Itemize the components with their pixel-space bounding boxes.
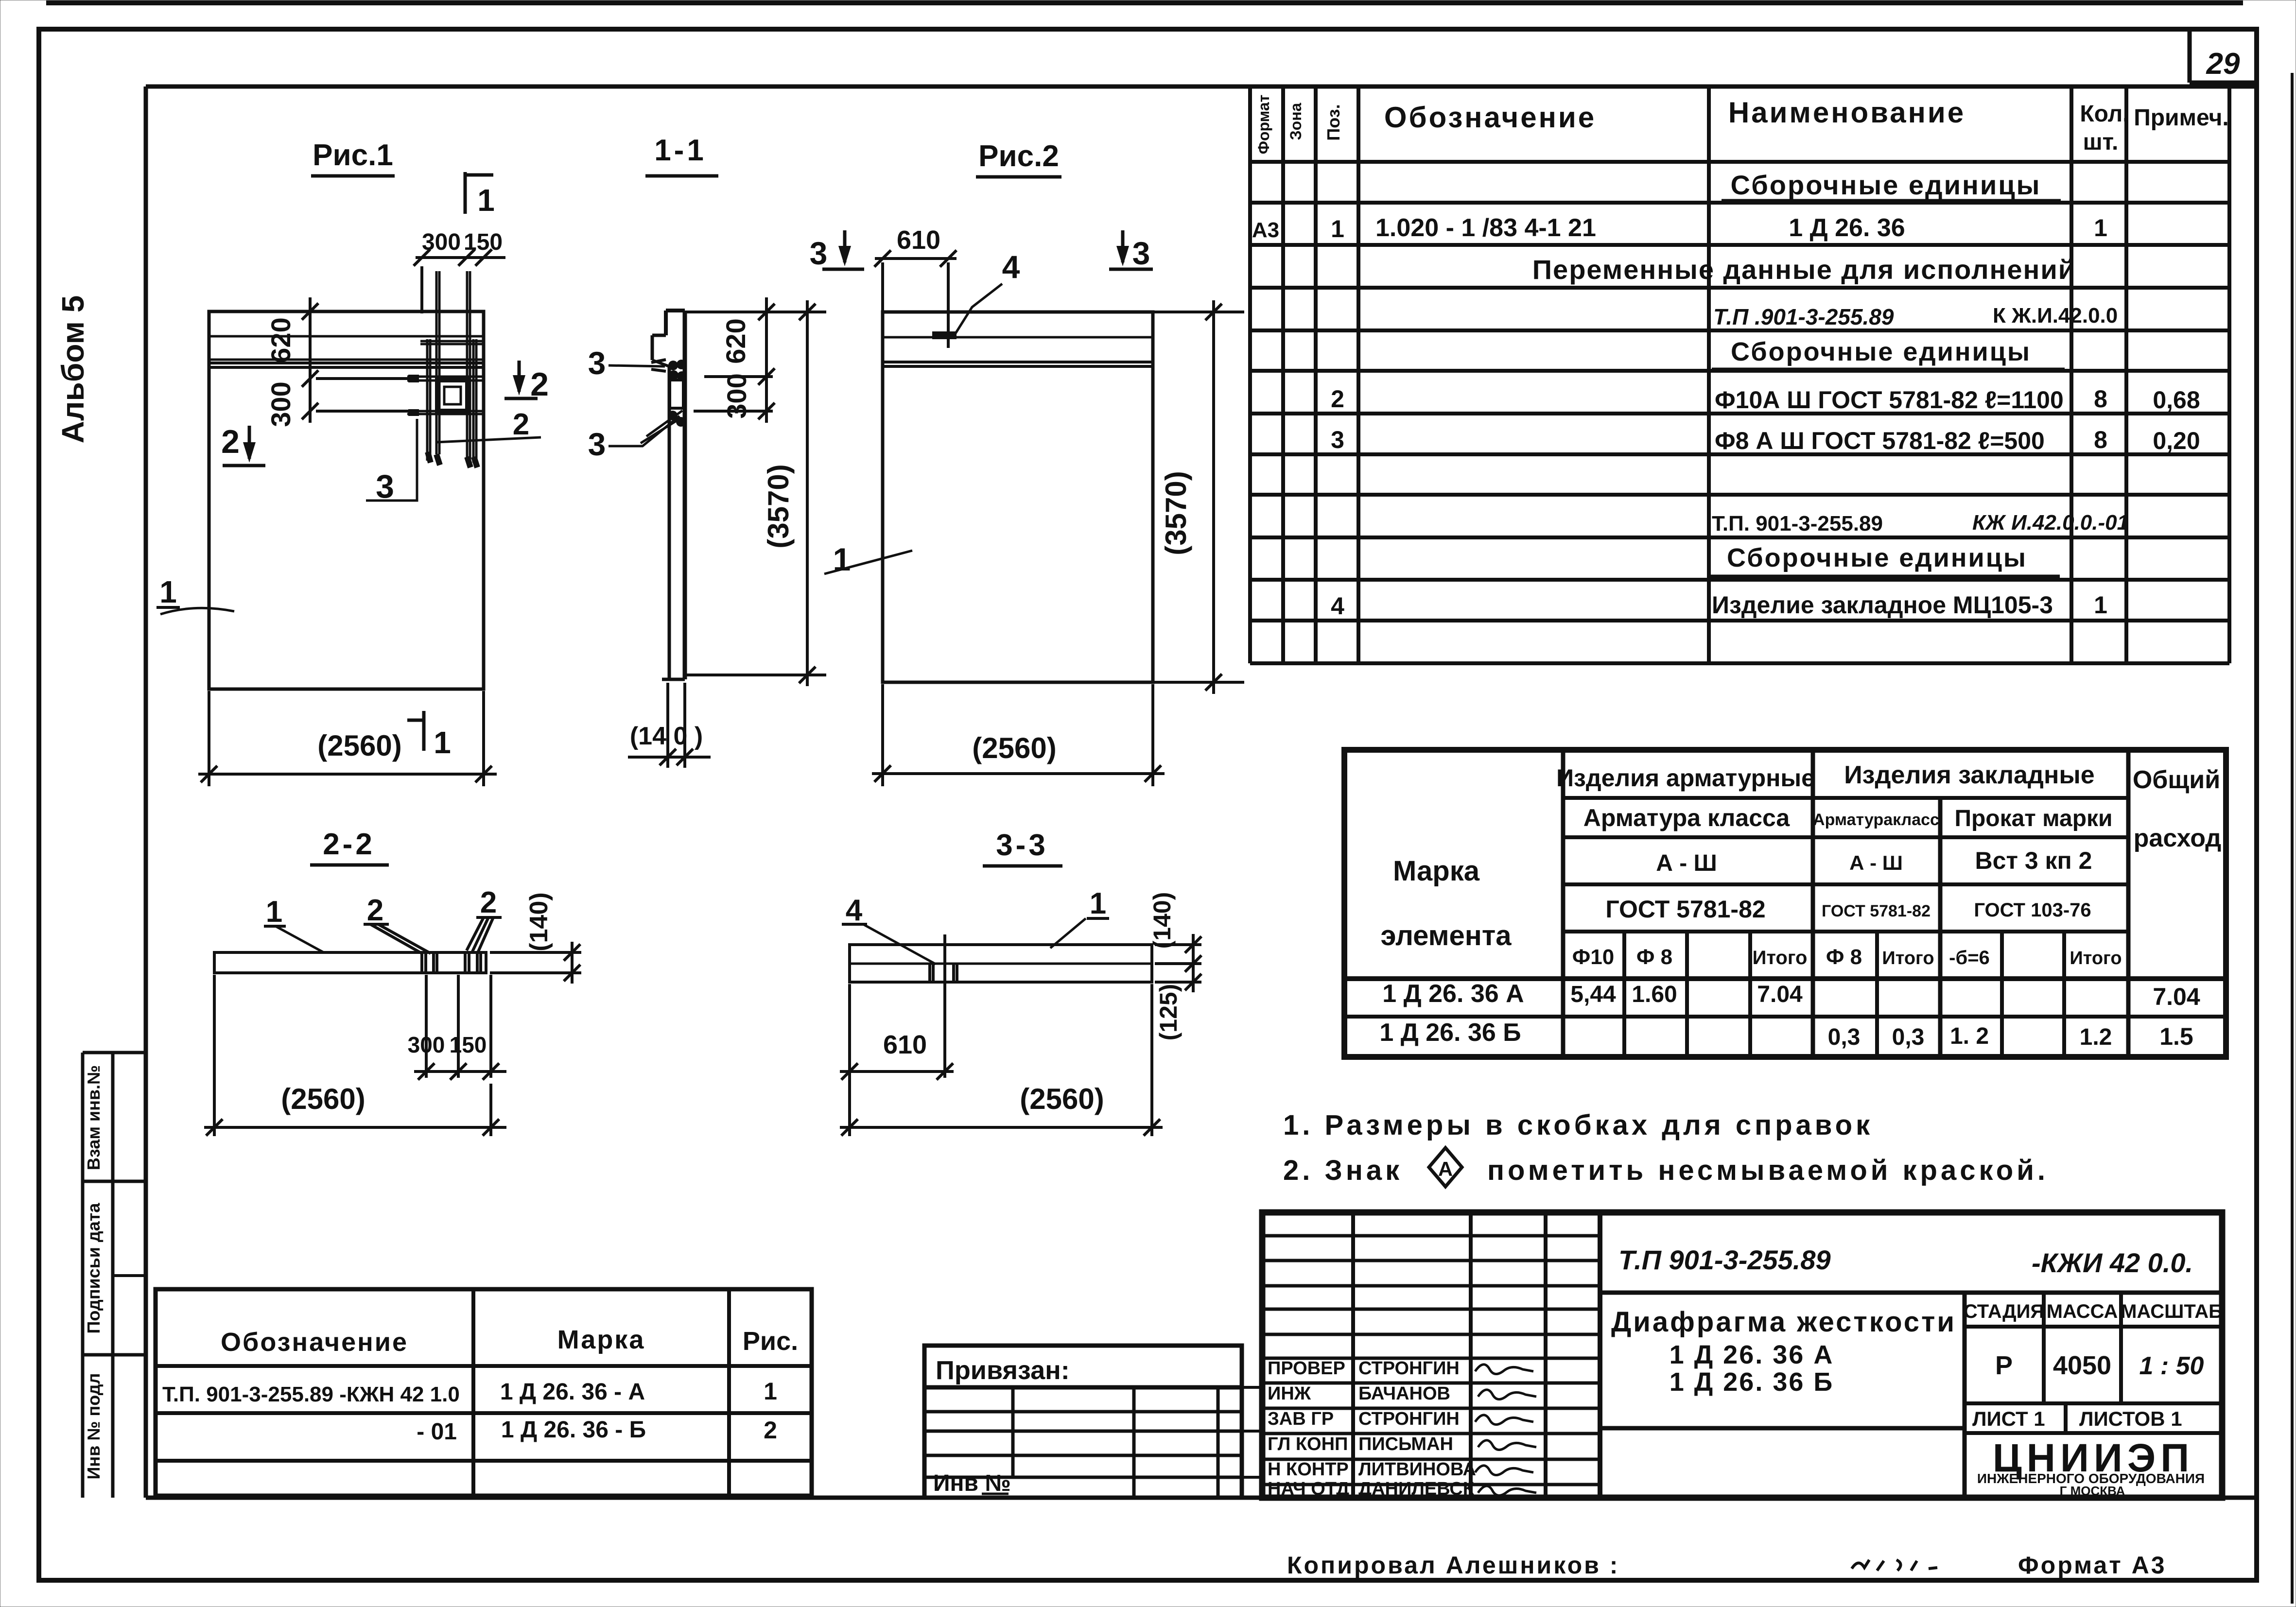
1-1 dimension (3570) xyxy=(685,311,826,313)
svg-text:Сборочные единицы: Сборочные единицы xyxy=(1731,170,2041,200)
title block left stamp rows xyxy=(1262,1234,1600,1238)
svg-text:1. Размеры в скобках для справ: 1. Размеры в скобках для справок xyxy=(1283,1109,1873,1141)
Рис.1 panel outline xyxy=(209,311,484,689)
svg-text:Н КОНТР: Н КОНТР xyxy=(1268,1459,1349,1480)
svg-text:-КЖИ 42 0.0.: -КЖИ 42 0.0. xyxy=(2032,1247,2193,1278)
svg-text:Формат: Формат xyxy=(1255,95,1272,155)
svg-text:Итого: Итого xyxy=(1882,948,1934,968)
svg-text:Вст 3 кп 2: Вст 3 кп 2 xyxy=(1975,847,2092,874)
svg-text:610: 610 xyxy=(897,225,940,255)
svg-text:ПИСЬМАН: ПИСЬМАН xyxy=(1358,1434,1453,1454)
Рис.1 opening (embedded square) xyxy=(437,380,468,411)
svg-text:3: 3 xyxy=(588,426,606,462)
svg-text:2: 2 xyxy=(221,423,240,460)
svg-text:(2560): (2560) xyxy=(317,729,401,762)
svg-text:0,20: 0,20 xyxy=(2153,427,2200,454)
svg-text:Привязан:: Привязан: xyxy=(936,1356,1070,1385)
svg-text:3: 3 xyxy=(810,235,828,271)
svg-text:КЖ И.42.0.0.-01: КЖ И.42.0.0.-01 xyxy=(1972,511,2129,535)
svg-text:7.04: 7.04 xyxy=(1757,982,1803,1007)
materials table grid xyxy=(1344,750,2226,1057)
svg-text:Переменные данные для исполнен: Переменные данные для исполнений xyxy=(1532,254,2076,285)
2-2 right dimension (140) xyxy=(490,951,581,954)
2-2 slab section xyxy=(214,952,486,973)
2-2 bottom dimension (2560) xyxy=(213,975,216,1136)
svg-text:2: 2 xyxy=(1331,385,1344,413)
svg-text:Прокат марки: Прокат марки xyxy=(1954,806,2112,831)
svg-text:4: 4 xyxy=(1002,249,1020,285)
1-1 section profile xyxy=(666,309,685,312)
svg-text:Диафрагма жесткости: Диафрагма жесткости xyxy=(1611,1306,1956,1338)
title block name cell xyxy=(1963,1293,1967,1498)
svg-text:Сборочные единицы: Сборочные единицы xyxy=(1727,543,2027,572)
title block code strip xyxy=(1600,1291,2222,1295)
svg-text:(140): (140) xyxy=(1148,892,1176,949)
svg-text:Изделия арматурные: Изделия арматурные xyxy=(1556,764,1815,792)
svg-text:300: 300 xyxy=(422,229,461,255)
1-1 bar cross-section dots xyxy=(668,361,678,370)
svg-text:2: 2 xyxy=(513,408,529,441)
svg-text:Р: Р xyxy=(1995,1351,2013,1380)
svg-text:Подписьи дата: Подписьи дата xyxy=(84,1203,104,1334)
svg-text:4050: 4050 xyxy=(2053,1351,2111,1380)
Рис.2 bottom dimension (2560) xyxy=(881,684,884,786)
svg-text:А: А xyxy=(1438,1158,1453,1180)
svg-text:-б=6: -б=6 xyxy=(1949,947,1990,968)
svg-text:3: 3 xyxy=(1132,235,1150,271)
svg-text:3-3: 3-3 xyxy=(996,829,1048,862)
svg-text:Итого: Итого xyxy=(1753,947,1808,968)
svg-text:- 01: - 01 xyxy=(417,1419,457,1445)
svg-text:(140): (140) xyxy=(525,892,553,951)
svg-text:ГОСТ 5781-82: ГОСТ 5781-82 xyxy=(1822,902,1931,920)
svg-text:1: 1 xyxy=(2094,214,2107,242)
Рис.1 rebar cage item 3 horizontal bars xyxy=(420,340,485,343)
Рис.1 section mark 1 (top) xyxy=(464,172,467,214)
Рис.1 top dimension 300 150 xyxy=(416,256,505,259)
3-3 right dimension (140)/(125) xyxy=(1155,943,1201,946)
svg-text:1.5: 1.5 xyxy=(2159,1023,2193,1050)
Рис.2 right dimension (3570) xyxy=(1153,311,1244,313)
svg-text:1 Д 26. 36 - А: 1 Д 26. 36 - А xyxy=(500,1379,645,1405)
svg-text:А3: А3 xyxy=(1252,218,1279,242)
svg-text:0,3: 0,3 xyxy=(1892,1024,1925,1050)
svg-text:ГЛ КОНΠ: ГЛ КОНΠ xyxy=(1268,1434,1348,1454)
svg-text:Общий: Общий xyxy=(2133,766,2220,794)
Рис.1 left dimension 620 / 300 xyxy=(309,297,312,423)
svg-text:Стадия: Стадия xyxy=(1964,1301,2044,1322)
svg-text:300: 300 xyxy=(408,1032,445,1057)
svg-text:Копировал Алешников :: Копировал Алешников : xyxy=(1287,1552,1619,1579)
svg-text:(3570): (3570) xyxy=(762,464,795,548)
svg-text:3: 3 xyxy=(588,345,606,381)
svg-text:2: 2 xyxy=(367,894,383,927)
svg-text:7.04: 7.04 xyxy=(2153,983,2200,1010)
svg-text:1: 1 xyxy=(2094,591,2107,619)
svg-text:ГОСТ 103-76: ГОСТ 103-76 xyxy=(1974,899,2091,921)
Рис.2 dimension 610 xyxy=(875,257,957,260)
svg-text:(125): (125) xyxy=(1155,984,1182,1041)
svg-text:1-1: 1-1 xyxy=(654,134,707,167)
Рис.1 rebar cage item 2 vertical bars xyxy=(435,271,438,454)
Рис.1 section mark 2 (right) xyxy=(518,361,521,392)
svg-text:НАЧ ОТД: НАЧ ОТД xyxy=(1268,1479,1349,1499)
svg-text:1: 1 xyxy=(159,574,177,609)
svg-text:Марка: Марка xyxy=(557,1325,645,1354)
1-1 dimension 620 / 300 xyxy=(765,297,768,423)
svg-text:1: 1 xyxy=(266,895,282,929)
1-1 embedded plate detail xyxy=(670,380,683,408)
svg-text:А - Ш: А - Ш xyxy=(1656,850,1717,876)
svg-text:пометить несмываемой краской: пометить несмываемой краской. xyxy=(1487,1155,2049,1186)
svg-text:ГОСТ 5781-82: ГОСТ 5781-82 xyxy=(1605,896,1765,923)
Рис.1 section mark 1 (bottom) xyxy=(422,711,426,751)
svg-text:8: 8 xyxy=(2094,426,2107,453)
svg-text:Взам инв.№: Взам инв.№ xyxy=(84,1065,104,1170)
Рис.1 leader item 2 (bottom of cage) xyxy=(436,437,541,442)
signatures xyxy=(1475,1365,1533,1374)
svg-text:1 Д 26. 36 - Б: 1 Д 26. 36 - Б xyxy=(501,1417,646,1443)
svg-text:0,3: 0,3 xyxy=(1828,1024,1861,1050)
svg-text:Обозначение: Обозначение xyxy=(1384,101,1596,134)
svg-text:Обозначение: Обозначение xyxy=(221,1328,408,1357)
svg-text:СТРОНГИН: СТРОНГИН xyxy=(1358,1358,1460,1379)
svg-text:0,68: 0,68 xyxy=(2153,386,2200,414)
svg-text:ЗАВ ГР: ЗАВ ГР xyxy=(1268,1409,1334,1429)
Рис.1 bar end hooks xyxy=(428,452,431,463)
svg-text:29: 29 xyxy=(2206,47,2240,81)
svg-text:(2560): (2560) xyxy=(972,732,1056,764)
svg-text:2: 2 xyxy=(764,1417,777,1444)
svg-text:ДАНИЛЕВСК: ДАНИЛЕВСК xyxy=(1358,1479,1475,1499)
svg-text:Ф 8: Ф 8 xyxy=(1636,945,1672,969)
svg-text:Т.П. 901-3-255.89 -КЖН 42 1.0: Т.П. 901-3-255.89 -КЖН 42 1.0 xyxy=(162,1382,460,1406)
svg-text:Т.П .901-3-255.89: Т.П .901-3-255.89 xyxy=(1713,304,1894,329)
Рис.2 embedded plate item 4 xyxy=(932,331,957,339)
svg-text:150: 150 xyxy=(464,229,503,255)
svg-text:Ф10: Ф10 xyxy=(1572,945,1615,969)
svg-text:1. 2: 1. 2 xyxy=(1950,1023,1989,1049)
svg-text:2: 2 xyxy=(480,886,497,919)
svg-text:5,44: 5,44 xyxy=(1570,982,1616,1007)
svg-text:Примеч.: Примеч. xyxy=(2134,105,2229,131)
svg-text:Марка: Марка xyxy=(1393,855,1480,887)
svg-text:3: 3 xyxy=(1331,426,1344,453)
svg-text:Арматуракласс: Арматуракласс xyxy=(1813,811,1939,829)
svg-text:Т.П 901-3-255.89: Т.П 901-3-255.89 xyxy=(1618,1244,1831,1275)
svg-text:Ф8 А Ш ГОСТ 5781-82 ℓ=500: Ф8 А Ш ГОСТ 5781-82 ℓ=500 xyxy=(1715,427,2045,454)
svg-text:2-2: 2-2 xyxy=(323,828,375,861)
svg-text:Формат А3: Формат А3 xyxy=(2018,1552,2167,1579)
svg-text:1 Д 26. 36 А: 1 Д 26. 36 А xyxy=(1670,1340,1834,1369)
svg-text:1: 1 xyxy=(764,1378,777,1405)
svg-text:Ф10А Ш ГОСТ 5781-82 ℓ=1100: Ф10А Ш ГОСТ 5781-82 ℓ=1100 xyxy=(1715,386,2064,414)
title block left stamp columns xyxy=(1351,1212,1355,1498)
1-1 bottom dimension (140) xyxy=(666,683,669,768)
svg-text:Поз.: Поз. xyxy=(1323,104,1343,140)
svg-text:шт.: шт. xyxy=(2083,129,2119,155)
specification table grid xyxy=(1248,86,1252,663)
svg-text:Масштаб: Масштаб xyxy=(2121,1301,2223,1322)
svg-text:3: 3 xyxy=(376,468,394,505)
svg-text:1: 1 xyxy=(1090,887,1106,920)
svg-text:Лист 1: Лист 1 xyxy=(1972,1407,2045,1430)
Рис.1 leader item 3 xyxy=(366,419,417,501)
note 2 diamond mark А xyxy=(1429,1148,1462,1187)
svg-text:Изделие закладное МЦ105-3: Изделие закладное МЦ105-3 xyxy=(1712,591,2053,619)
Рис.1 bottom dimension (2560) xyxy=(208,691,210,786)
svg-text:Г МОСКВА: Г МОСКВА xyxy=(2060,1484,2125,1498)
svg-text:элемента: элемента xyxy=(1380,920,1512,951)
svg-text:ПРОВЕР: ПРОВЕР xyxy=(1268,1358,1345,1379)
svg-text:Изделия закладные: Изделия закладные xyxy=(1844,761,2094,789)
Рис.2 panel band lines xyxy=(883,336,1153,339)
3-3 bottom dimension (2560) xyxy=(1150,984,1153,1136)
page number box xyxy=(2188,29,2192,83)
svg-text:расход: расход xyxy=(2134,824,2222,852)
title block stadia/massa/masshtab xyxy=(1965,1325,2222,1329)
svg-text:1 Д 26. 36 А: 1 Д 26. 36 А xyxy=(1382,980,1524,1008)
привязан table grid xyxy=(924,1346,1242,1498)
svg-text:300: 300 xyxy=(721,373,752,418)
inner drawing frame xyxy=(146,85,2257,89)
svg-text:1.020 - 1 /83 4-1 21: 1.020 - 1 /83 4-1 21 xyxy=(1375,214,1596,242)
svg-text:2: 2 xyxy=(530,366,549,403)
3-3 dimension 610 xyxy=(943,934,946,1078)
svg-text:4: 4 xyxy=(846,894,863,927)
svg-text:1: 1 xyxy=(1331,215,1344,242)
svg-text:1.2: 1.2 xyxy=(2080,1024,2112,1050)
left margin stamp strip xyxy=(81,1053,85,1498)
2-2 bar groups item 2 xyxy=(420,952,423,973)
svg-text:620: 620 xyxy=(265,317,296,363)
svg-text:Масса: Масса xyxy=(2047,1301,2118,1322)
svg-text:А - Ш: А - Ш xyxy=(1849,851,1903,874)
svg-text:(3570): (3570) xyxy=(1160,471,1192,555)
svg-text:Сборочные единицы: Сборочные единицы xyxy=(1731,337,2031,366)
svg-text:СТРОНГИН: СТРОНГИН xyxy=(1358,1409,1460,1429)
svg-text:К Ж.И.42.0.0: К Ж.И.42.0.0 xyxy=(1993,304,2118,328)
Рис.2 section mark 3 (right) xyxy=(1121,230,1125,262)
scan artifact: top edge strip xyxy=(46,0,2243,5)
3-3 key detail item 4 xyxy=(928,964,931,982)
title block list row xyxy=(2064,1403,2068,1433)
svg-text:(2560): (2560) xyxy=(281,1083,365,1115)
svg-text:Кол.: Кол. xyxy=(2080,101,2129,127)
svg-text:Арматура класса: Арматура класса xyxy=(1583,804,1791,831)
handwritten date xyxy=(1852,1560,1937,1571)
Рис.1 panel top band lines xyxy=(209,335,484,338)
svg-text:БАЧАНОВ: БАЧАНОВ xyxy=(1358,1383,1450,1404)
svg-text:620: 620 xyxy=(720,318,751,363)
scan artifact: right edge line xyxy=(2291,73,2294,1604)
svg-text:Т.П. 901-3-255.89: Т.П. 901-3-255.89 xyxy=(1712,512,1883,536)
bottom-left reference table grid xyxy=(156,1289,812,1496)
svg-text:1 Д 26. 36 Б: 1 Д 26. 36 Б xyxy=(1670,1367,1834,1397)
Рис.2 panel outline xyxy=(883,312,1153,682)
svg-text:8: 8 xyxy=(2094,385,2107,413)
svg-text:1 Д 26. 36: 1 Д 26. 36 xyxy=(1789,214,1905,242)
svg-text:Инв № подл: Инв № подл xyxy=(84,1373,104,1480)
svg-text:2. Знак: 2. Знак xyxy=(1283,1155,1403,1186)
svg-text:ИНЖ: ИНЖ xyxy=(1268,1383,1311,1404)
svg-text:(2560): (2560) xyxy=(1020,1083,1104,1115)
svg-text:Инв №: Инв № xyxy=(933,1470,1011,1496)
svg-text:150: 150 xyxy=(450,1032,487,1057)
3-3 slab section xyxy=(850,945,1152,982)
svg-text:(14 0 ): (14 0 ) xyxy=(630,722,703,750)
svg-text:1.60: 1.60 xyxy=(1632,982,1677,1007)
svg-text:1: 1 xyxy=(477,183,495,218)
svg-text:Зона: Зона xyxy=(1287,103,1305,140)
svg-text:1 Д 26. 36 Б: 1 Д 26. 36 Б xyxy=(1379,1019,1521,1047)
svg-text:Ф 8: Ф 8 xyxy=(1826,945,1862,969)
svg-text:1 : 50: 1 : 50 xyxy=(2139,1352,2204,1380)
svg-text:300: 300 xyxy=(265,381,296,427)
svg-text:Итого: Итого xyxy=(2070,948,2122,968)
svg-text:4: 4 xyxy=(1331,592,1344,620)
svg-text:Рис.2: Рис.2 xyxy=(978,139,1059,173)
svg-text:610: 610 xyxy=(883,1030,927,1059)
svg-text:1: 1 xyxy=(434,725,451,760)
svg-text:Наименование: Наименование xyxy=(1728,96,1966,129)
2-2 bottom small dimensions 300 150 xyxy=(425,975,428,1078)
title block outline xyxy=(1262,1212,2222,1498)
svg-text:Рис.: Рис. xyxy=(743,1327,798,1356)
svg-text:ЛИТВИНОВА: ЛИТВИНОВА xyxy=(1358,1459,1476,1480)
svg-text:Листов 1: Листов 1 xyxy=(2079,1407,2182,1430)
svg-text:Рис.1: Рис.1 xyxy=(313,138,393,172)
svg-text:Альбом 5: Альбом 5 xyxy=(55,295,90,444)
